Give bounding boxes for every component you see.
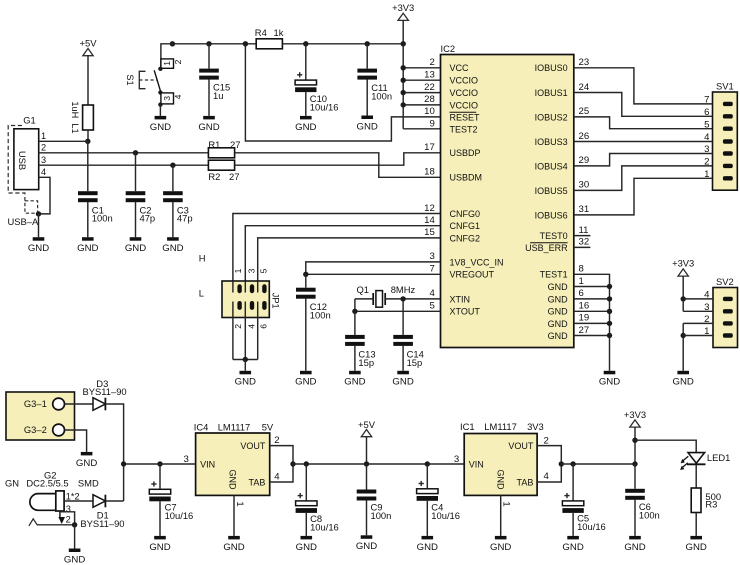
svg-text:IOBUS0: IOBUS0 [535,63,568,73]
svg-text:LM1117: LM1117 [484,421,517,432]
wire C4 up [426,464,428,489]
svg-text:2: 2 [173,59,183,64]
capacitor C3 47p [163,191,192,224]
wire G3-1 to D3 [65,403,94,405]
wire C13 up [354,311,356,335]
svg-text:100n: 100n [92,213,113,224]
svg-text:47p: 47p [140,213,156,224]
wire RESET net [245,44,440,141]
svg-text:TAB: TAB [249,477,266,487]
ground C15 [198,116,219,133]
svg-text:10u/16: 10u/16 [310,521,339,532]
svg-text:SV1: SV1 [716,81,734,92]
svg-text:31: 31 [579,204,590,215]
svg-text:7: 7 [429,264,434,275]
svg-text:47p: 47p [177,213,193,224]
svg-text:USB: USB [17,151,28,170]
svg-text:GND: GND [149,542,170,553]
node IC4 output junction [290,461,295,466]
svg-text:2: 2 [233,324,243,329]
svg-text:2: 2 [429,57,434,68]
ground S1 [150,116,171,133]
svg-text:JP1: JP1 [271,293,281,309]
wire C2 up [135,153,137,191]
svg-text:GND: GND [64,554,85,565]
svg-text:100n: 100n [371,510,392,521]
voltage regulator IC4 LM1117 5V [194,421,274,495]
G1 pin 4 wire [39,167,51,214]
svg-text:VREGOUT: VREGOUT [450,270,495,280]
ground C10 [295,116,316,133]
svg-text:26: 26 [579,131,590,142]
wire XTOUT [352,299,440,314]
wire C10 up [305,44,307,80]
capacitor C5 10u/16 [562,493,605,532]
svg-text:14: 14 [424,215,435,226]
svg-text:GND: GND [235,377,256,388]
wire CNFG0 to JP1.1 [233,214,441,282]
svg-text:25: 25 [579,106,590,117]
svg-text:32: 32 [579,237,590,248]
svg-text:GND: GND [357,121,378,132]
ground G3-2 [76,452,97,469]
ground IC4 [223,536,244,553]
svg-text:27: 27 [229,171,239,182]
wire C3 to ground [172,202,174,237]
svg-text:GND: GND [76,458,97,469]
svg-text:R1: R1 [208,139,220,150]
wire 3V3 rail [561,463,635,465]
svg-text:GND: GND [495,469,505,490]
svg-text:1: 1 [234,501,245,506]
node VBUS junction [85,139,90,144]
resistor R2 27 [208,160,239,182]
svg-text:CNFG1: CNFG1 [450,221,481,231]
svg-text:IOBUS4: IOBUS4 [535,161,568,171]
wire IOBUS6 to SV1.1 [574,178,713,215]
svg-text:USBDP: USBDP [450,148,481,158]
svg-text:2: 2 [274,435,279,446]
wire SV2.2/.1 to ground [681,323,714,370]
wire C11 up [366,44,368,69]
svg-text:GND: GND [295,122,316,133]
svg-text:GND: GND [548,307,569,317]
connector JP1 [222,268,281,328]
node R4 left junction [243,41,248,46]
svg-text:19: 19 [579,313,590,324]
svg-text:2: 2 [544,435,549,446]
node C11 junction [365,41,370,46]
resistor R4 1k [255,27,284,49]
svg-text:GND: GND [490,542,511,553]
wire C3 up [172,165,174,191]
svg-text:GND: GND [562,542,583,553]
svg-text:3: 3 [41,155,46,165]
node C15 junction [206,41,211,46]
svg-text:28: 28 [424,94,435,105]
capacitor C9 100n [357,490,392,522]
power +3V3 (SV2) [672,258,694,277]
svg-text:LM1117: LM1117 [218,421,251,432]
svg-text:23: 23 [579,57,590,68]
capacitor C12 100n [296,288,331,321]
power +3V3 (bottom) [624,409,646,464]
wire IOBUS4 to SV1.3 [574,154,713,166]
capacitor C8 10u/16 [296,493,339,532]
svg-text:GND: GND [417,542,438,553]
svg-text:10: 10 [424,106,435,117]
wire C7 up [159,464,161,489]
svg-text:SV2: SV2 [716,276,734,287]
svg-text:G3–2: G3–2 [24,424,47,435]
svg-text:RESET: RESET [450,112,481,122]
node D- at C2 [133,150,138,155]
pin stub USB_ERR (32) [574,246,591,248]
svg-text:29: 29 [579,155,590,166]
wire LED1 to R3 [695,464,697,488]
wire C9 up [366,464,368,490]
wire R3 to ground [695,513,697,536]
wire VBUS to C1 [87,141,89,191]
svg-text:4: 4 [173,94,183,99]
wire G2 tip to D1 [64,500,93,502]
svg-text:1V8_VCC_IN: 1V8_VCC_IN [450,257,504,267]
wire C14 up [402,299,404,335]
svg-text:3: 3 [454,454,459,465]
svg-text:IOBUS2: IOBUS2 [535,112,568,122]
wire 5V rail [293,463,464,465]
svg-text:IOBUS1: IOBUS1 [535,88,568,98]
wire +3V3 to SV2.4/.3 [681,276,714,311]
svg-text:+3V3: +3V3 [672,258,694,269]
ground IC1 [490,536,511,553]
svg-text:1uH L1: 1uH L1 [70,101,80,133]
svg-text:TEST0: TEST0 [540,231,568,241]
connector SV1 [704,81,737,191]
wire L1 to VBUS node [87,130,89,141]
svg-text:6: 6 [259,324,269,329]
svg-text:5V: 5V [262,421,274,432]
svg-text:100n: 100n [639,509,660,520]
svg-text:1*2: 1*2 [66,491,80,501]
ground JP1 [235,371,256,388]
ground C12 [295,371,316,388]
wire C8 up [305,464,307,501]
svg-text:4: 4 [544,471,550,482]
wire C11 to ground [366,79,368,115]
svg-text:1u: 1u [213,90,223,101]
svg-text:8: 8 [579,264,584,275]
label USB-A [8,216,39,227]
svg-text:12: 12 [424,203,435,214]
svg-text:4: 4 [274,471,280,482]
inductor L1 1uH [70,101,93,133]
svg-text:GND: GND [686,542,707,553]
diode D1 BYS11-90 [80,495,124,530]
ground G1 [28,237,49,254]
wire C6 up [634,464,636,489]
wire TEST1/GND rail [574,274,612,371]
ground C11 [357,116,378,133]
ground C9 [356,535,377,552]
svg-text:IOBUS3: IOBUS3 [535,137,568,147]
wire C15 up [208,44,210,69]
wire C9 to ground [366,500,368,535]
svg-text:9: 9 [429,119,434,130]
capacitor C7 10u/16 [149,481,193,521]
svg-text:VOUT: VOUT [508,441,534,451]
wire C8 to ground [305,513,307,536]
ground C8 [296,536,317,553]
IC U2 — IC2 USB controller block with pin names and numbers [424,43,590,348]
wire IOBUS2 to SV1.5 [574,117,713,129]
G1 pin 1 [39,131,88,141]
svg-text:IOBUS6: IOBUS6 [535,210,568,220]
capacitor C6 100n [625,489,660,521]
node C5 junction [570,461,575,466]
svg-text:GND: GND [77,243,98,254]
svg-text:GND: GND [223,542,244,553]
wire R2 to USBDP [235,153,441,165]
pin stub TEST0 (11) [574,235,591,237]
svg-text:4: 4 [429,288,435,299]
resistor R3 500 [691,488,721,513]
crystal Q1 8MHz [355,284,441,307]
svg-text:GND: GND [548,294,569,304]
ground SV2 [673,371,694,388]
connector G1 USB body [14,129,39,190]
svg-text:GND: GND [295,377,316,388]
ground C7 [149,536,170,553]
node C6 junction [632,461,637,466]
power +5V (top left) [80,37,98,55]
svg-text:8MHz: 8MHz [391,284,416,295]
connector SV2 [704,276,737,348]
svg-text:13: 13 [424,70,435,81]
svg-text:1: 1 [162,61,172,66]
svg-text:VCCIO: VCCIO [450,100,479,110]
svg-text:S1: S1 [125,74,135,85]
wire C12 to ground [305,298,307,371]
wire JP1.2/.4/.6 to ground [233,318,258,371]
wire IOBUS0 to SV1.7 [574,68,713,104]
label L [199,288,204,299]
ground C2 [125,237,146,254]
svg-text:USB–A: USB–A [8,216,39,227]
svg-text:3: 3 [162,96,172,101]
svg-text:GND: GND [198,122,219,133]
capacitor C2 47p [126,191,155,224]
svg-text:10u/16: 10u/16 [431,510,460,521]
svg-text:22: 22 [424,82,435,93]
power +5V (bottom) [358,419,376,464]
svg-text:4: 4 [246,324,256,329]
svg-text:GN: GN [5,478,19,489]
wire C6 to ground [634,499,636,536]
wire shield to ground [38,214,40,237]
svg-text:SMD: SMD [78,478,99,489]
ground C5 [562,536,583,553]
ground G2 [64,549,85,565]
node LED branch junction [632,438,637,443]
wire +5V to L1 [87,56,89,105]
svg-text:USBDM: USBDM [450,173,483,183]
wire 1V8_VCC_IN jog [306,262,441,274]
svg-text:G1: G1 [23,114,36,125]
ground C4 [417,536,438,553]
svg-text:XTIN: XTIN [450,294,471,304]
wire CNFG2 to JP1.5 [258,238,441,281]
wire C7 to ground [159,501,161,536]
capacitor C10 10u/16 [295,72,338,112]
capacitor C15 1u [199,69,230,102]
wire C5 up [572,464,574,501]
node XTIN junction [400,296,405,301]
svg-text:5: 5 [259,268,269,273]
node C8 junction [304,461,309,466]
svg-text:3V3: 3V3 [527,421,544,432]
wire VREGOUT [303,272,440,277]
wire IC1 TAB [537,464,561,482]
svg-text:IC2: IC2 [441,43,456,54]
svg-text:VOUT: VOUT [240,441,266,451]
svg-text:GND: GND [356,541,377,552]
svg-text:15p: 15p [407,357,423,368]
wire IC4 TAB [270,464,293,482]
svg-text:1: 1 [501,501,512,506]
wire VIN rail [121,454,196,467]
svg-text:TEST2: TEST2 [450,125,478,135]
svg-text:16: 16 [579,301,590,312]
svg-text:VIN: VIN [200,459,215,469]
svg-text:R4: R4 [255,27,267,38]
LED LED1 [680,452,730,470]
svg-text:+3V3: +3V3 [624,409,646,420]
svg-text:+5V: +5V [358,419,376,430]
wire C15 to ground [208,79,210,116]
capacitor C4 10u/16 [417,481,460,521]
svg-text:DC2.5/5.5: DC2.5/5.5 [26,478,68,489]
svg-text:17: 17 [424,142,435,153]
ground R3 [686,536,707,553]
node C4 junction [425,461,430,466]
node IC1 output junction [559,461,564,466]
svg-text:2: 2 [41,143,46,153]
wire IOBUS5 to SV1.2 [574,166,713,191]
svg-text:+5V: +5V [80,37,98,48]
svg-text:+3V3: +3V3 [392,2,414,13]
svg-text:1: 1 [233,268,243,273]
svg-text:24: 24 [579,82,590,93]
svg-text:TEST1: TEST1 [540,270,568,280]
svg-text:IOBUS5: IOBUS5 [535,186,568,196]
G1 pin 2 wire to R1 [39,143,209,153]
svg-text:USB_ERR: USB_ERR [525,243,568,253]
svg-text:TAB: TAB [517,477,534,487]
wire C10 to ground [305,92,307,116]
svg-text:GND: GND [28,243,49,254]
USB-A shield dashed box [25,201,38,213]
svg-text:1k: 1k [274,27,284,38]
wire G3-2 to ground [65,430,87,452]
resistor R1 27 [208,139,240,158]
capacitor C11 100n [357,69,392,102]
svg-text:15p: 15p [358,357,374,368]
wire +3V3 rail [401,20,441,128]
ground C6 [624,536,645,553]
svg-text:2: 2 [66,514,71,524]
svg-text:R3: R3 [705,499,717,510]
svg-text:30: 30 [579,180,590,191]
svg-text:GND: GND [548,282,569,292]
svg-text:GND: GND [599,377,620,388]
wire C14 to ground [402,346,404,371]
wire IOBUS3 to SV1.4 [574,141,713,143]
wire D1 to VIN node [105,500,123,502]
svg-text:100n: 100n [371,90,392,101]
node C9 junction [364,461,369,466]
svg-text:18: 18 [424,167,435,178]
svg-text:R2: R2 [208,171,220,182]
svg-text:6: 6 [579,288,584,299]
svg-text:GND: GND [673,377,694,388]
wire IC4 VOUT [270,435,293,464]
wire D3 to VIN node [105,404,123,501]
connector G3 block [6,392,75,440]
connector G1 label [23,114,36,125]
diode D3 BYS11-90 [83,378,127,410]
svg-text:GND: GND [344,377,365,388]
svg-text:3: 3 [246,268,256,273]
svg-text:VCCIO: VCCIO [450,76,479,86]
wire R1 to USBDM [235,153,441,178]
svg-text:GND: GND [162,243,183,254]
G1 pin 3 wire to R2 [39,155,209,165]
svg-text:3: 3 [183,454,188,465]
svg-text:11: 11 [579,225,589,236]
wire S1 to ground [159,105,161,116]
wire G2 to ground [74,525,76,549]
ground C3 [162,237,183,254]
wire C12 up [305,274,307,287]
capacitor C1 100n [78,191,113,224]
svg-text:IC4: IC4 [194,421,209,432]
wire C4 to ground [426,501,428,536]
connector G1 dashed outline [8,126,25,201]
svg-text:VCC: VCC [450,63,470,73]
svg-text:15: 15 [424,227,435,238]
ground IC2 [599,371,620,388]
wire C13 to ground [354,346,356,371]
svg-text:L: L [199,288,204,299]
svg-text:3: 3 [429,251,434,262]
svg-text:10u/16: 10u/16 [310,102,339,113]
node C7 junction [157,461,162,466]
node D+ at C3 [170,163,175,168]
svg-text:GND: GND [150,122,171,133]
svg-text:GND: GND [125,243,146,254]
svg-text:VIN: VIN [469,459,484,469]
svg-text:GND: GND [392,377,413,388]
capacitor C14 15p [393,335,424,368]
voltage regulator IC1 LM1117 3V3 [454,421,544,495]
node shield junction [36,211,41,216]
ground C1 [77,237,98,254]
svg-text:100n: 100n [310,310,331,321]
wire CNFG1 to JP1.3 [245,226,440,281]
node S1 junction [170,41,175,46]
svg-text:VCCIO: VCCIO [450,88,479,98]
